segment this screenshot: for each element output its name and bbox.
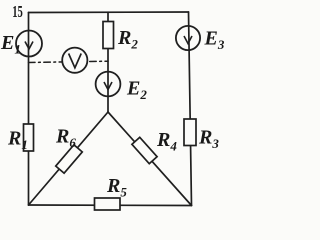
wire right (189, 12, 192, 206)
source E2 (96, 72, 121, 97)
wire middle branch (107, 12, 109, 112)
resistor R3 (184, 119, 196, 146)
resistor R2 (103, 22, 114, 49)
voltmeter V (62, 48, 87, 73)
wire diagonal right (108, 112, 192, 206)
resistor R5 (95, 198, 121, 210)
wire dashed voltmeter link (29, 61, 109, 62)
wire left (28, 13, 30, 206)
source E1 (16, 31, 42, 57)
wire diagonal left (29, 112, 109, 205)
source E3 (176, 26, 200, 50)
wire top (29, 11, 189, 14)
resistor R1 (24, 124, 34, 151)
resistor R4 (132, 137, 157, 163)
wire bottom (29, 204, 192, 207)
svg-text:15: 15 (12, 2, 23, 21)
resistor R6 (56, 145, 83, 173)
